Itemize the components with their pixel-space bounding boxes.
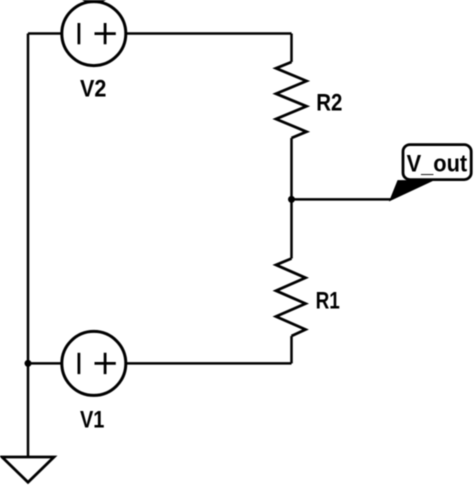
wire R2 top lead	[290, 34, 293, 63]
wire R1 bottom lead	[290, 336, 293, 363]
voltage source V1	[62, 331, 126, 395]
clipped arrowhead artifact top	[82, 0, 106, 3]
wire left rail	[27, 34, 30, 457]
wire bottom	[28, 362, 292, 365]
svg-text:R1: R1	[316, 288, 340, 315]
svg-text:R2: R2	[316, 89, 342, 116]
node V_out junction dot	[288, 196, 295, 203]
node V1 junction dot	[25, 360, 32, 367]
wire R2 to R1	[290, 138, 293, 259]
svg-text:V2: V2	[80, 75, 106, 102]
ground	[2, 457, 54, 482]
resistor R2	[276, 62, 307, 138]
resistor R1	[276, 259, 306, 337]
svg-text:V_out: V_out	[407, 150, 468, 178]
wire top	[28, 32, 292, 35]
flag V_out pointer	[390, 181, 433, 201]
svg-text:V1: V1	[80, 406, 104, 433]
wire V_out stub	[292, 198, 391, 201]
voltage source V2	[62, 2, 126, 66]
flag V_out box	[403, 145, 471, 180]
